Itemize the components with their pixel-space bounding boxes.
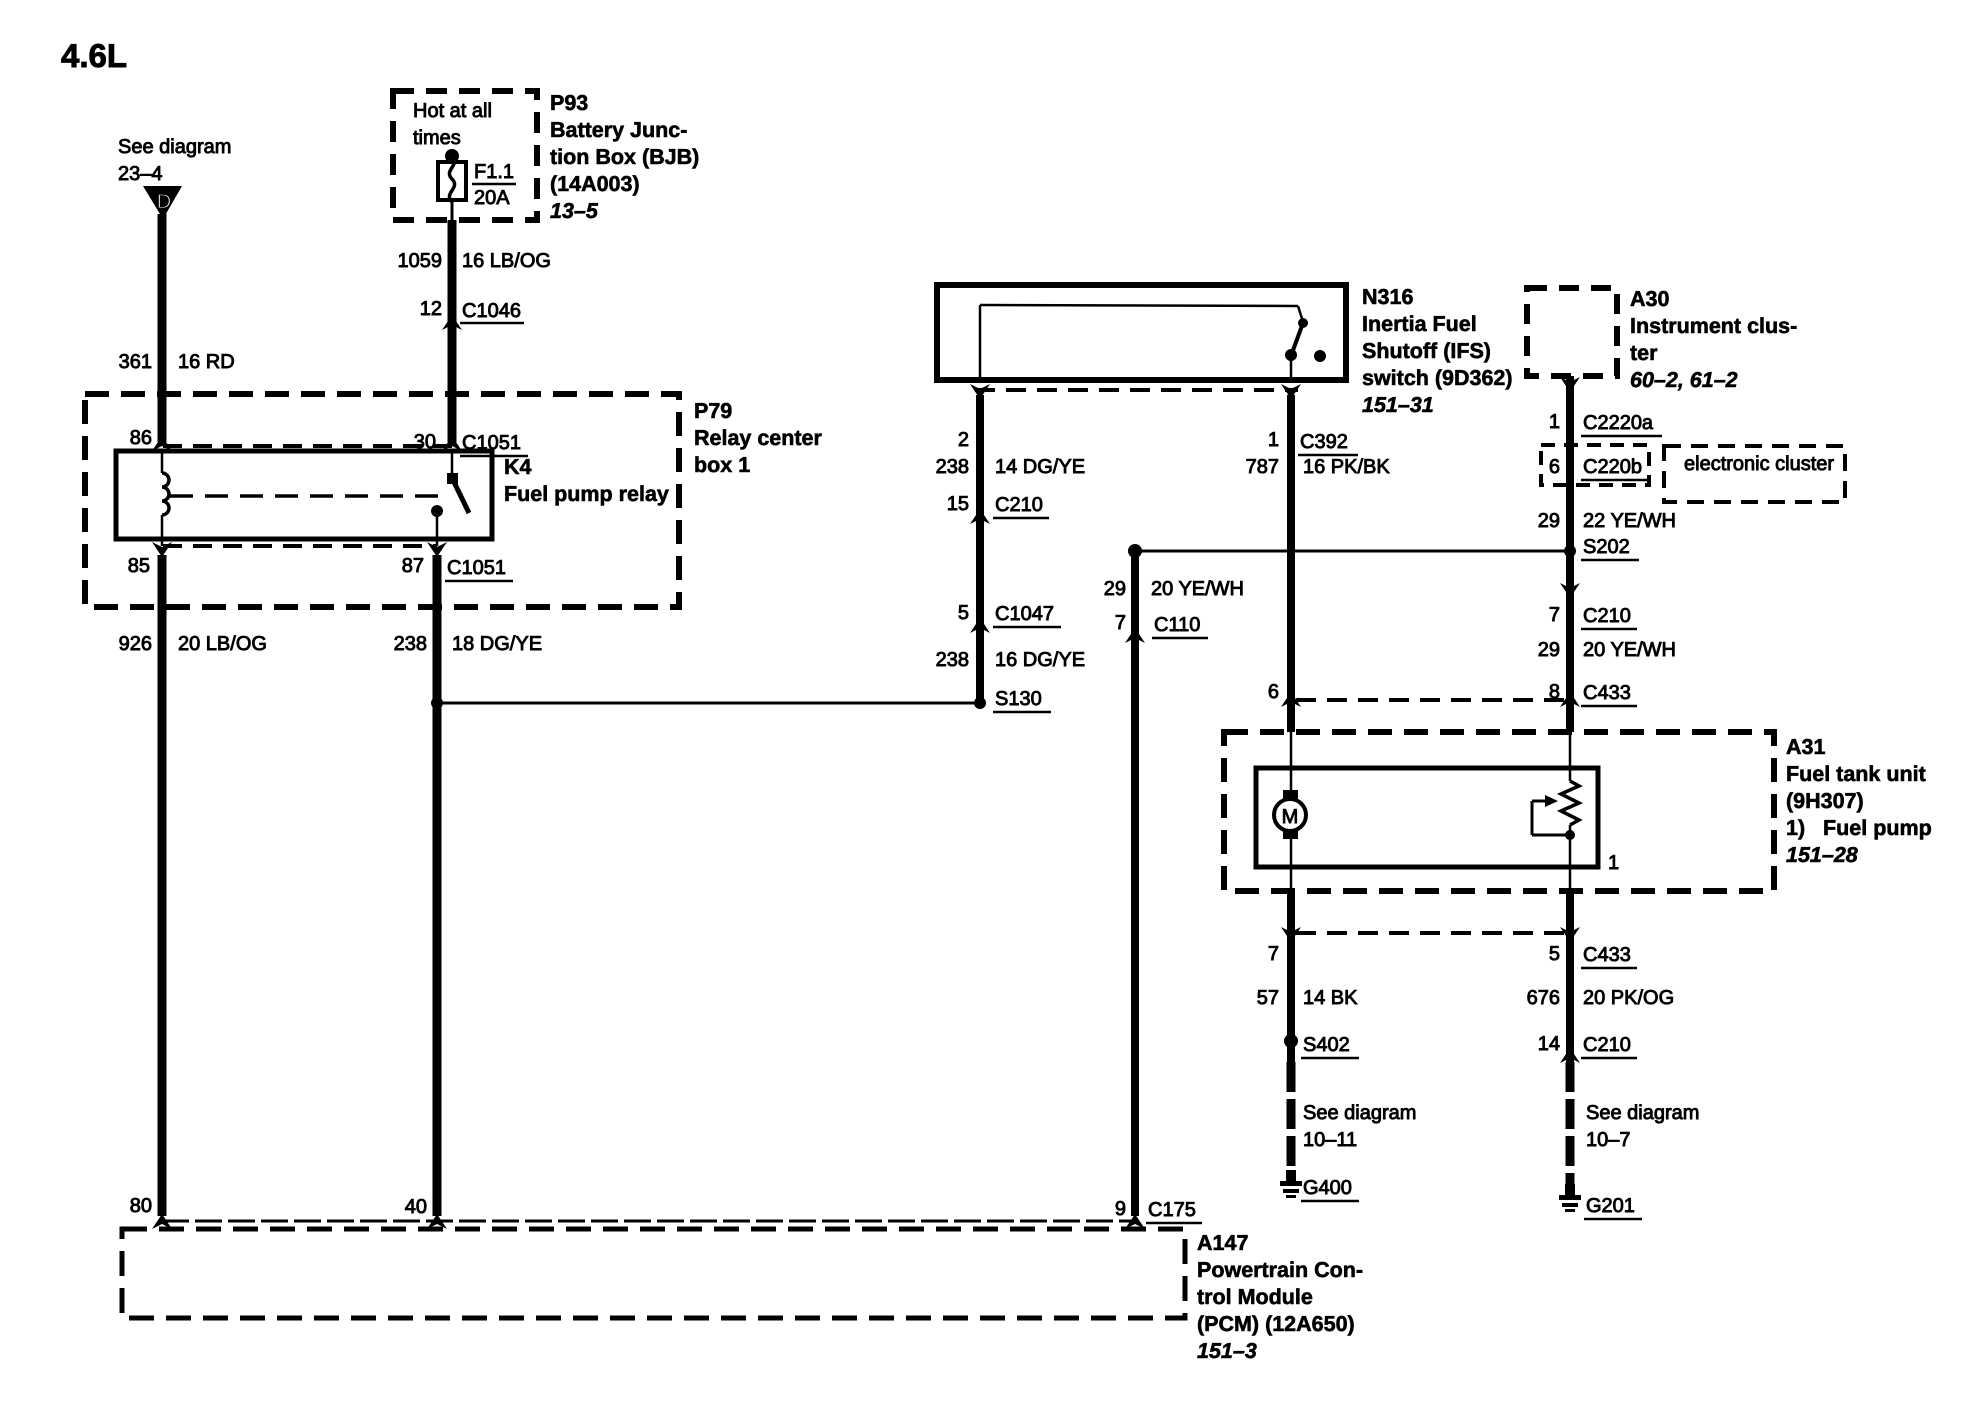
relay K4 body (116, 451, 492, 539)
svg-text:S402: S402 (1303, 1034, 1350, 1056)
A30 instrument cluster box (dashed) (1527, 288, 1617, 376)
wire 787 16 PK/BK (IFS pin1 down to fuel pump) (1287, 395, 1295, 732)
svg-text:C210: C210 (995, 494, 1043, 516)
svg-text:switch (9D362): switch (9D362) (1362, 366, 1513, 390)
svg-text:361: 361 (119, 351, 152, 373)
svg-text:S202: S202 (1583, 536, 1630, 558)
svg-text:926: 926 (119, 633, 152, 655)
svg-text:15: 15 (947, 493, 969, 515)
svg-text:12: 12 (420, 298, 442, 320)
svg-text:29: 29 (1104, 578, 1126, 600)
svg-text:18 DG/YE: 18 DG/YE (452, 633, 542, 655)
svg-text:20A: 20A (474, 187, 510, 209)
connector C392 (IFS pins 2/1) (975, 388, 1298, 392)
svg-text:D: D (157, 191, 171, 213)
svg-text:14: 14 (1538, 1033, 1560, 1055)
svg-text:23–4: 23–4 (118, 163, 163, 185)
svg-text:P79: P79 (694, 399, 732, 423)
svg-text:S130: S130 (995, 688, 1042, 710)
svg-text:8: 8 (1549, 681, 1560, 703)
svg-text:1059: 1059 (398, 250, 443, 272)
A147 PCM box (dashed) (122, 1229, 1185, 1318)
svg-text:16 LB/OG: 16 LB/OG (462, 250, 551, 272)
svg-text:29: 29 (1538, 639, 1560, 661)
connector C433 pins 7/5 (1296, 931, 1566, 935)
svg-text:electronic cluster: electronic cluster (1684, 453, 1834, 475)
svg-text:5: 5 (958, 602, 969, 624)
wire 29/S202 to C110 (thin link) (1135, 550, 1570, 553)
svg-text:5: 5 (1549, 943, 1560, 965)
svg-text:20 YE/WH: 20 YE/WH (1583, 639, 1676, 661)
svg-text:7: 7 (1268, 943, 1279, 965)
ground G400 (1286, 1170, 1296, 1182)
svg-text:85: 85 (128, 555, 150, 577)
svg-text:9: 9 (1115, 1198, 1126, 1220)
svg-text:Fuel pump relay: Fuel pump relay (504, 482, 669, 506)
svg-text:tion Box (BJB): tion Box (BJB) (550, 145, 699, 169)
svg-text:C433: C433 (1583, 682, 1631, 704)
svg-text:K4: K4 (504, 455, 532, 479)
pin 9 connector C175 (1125, 1214, 1145, 1229)
fuel level sender (variable resistor) (1569, 732, 1572, 781)
svg-text:10–11: 10–11 (1303, 1129, 1357, 1151)
IFS internal contacts (979, 305, 982, 380)
svg-text:See diagram: See diagram (1303, 1102, 1416, 1124)
svg-text:20 LB/OG: 20 LB/OG (178, 633, 267, 655)
svg-text:57: 57 (1257, 987, 1279, 1009)
N316 IFS switch box (937, 285, 1346, 380)
wire 238 18 DG/YE (relay 87 to PCM 40) (433, 555, 442, 1216)
svg-text:2: 2 (958, 429, 969, 451)
svg-text:N316: N316 (1362, 285, 1413, 309)
svg-text:87: 87 (402, 555, 424, 577)
svg-text:14 BK: 14 BK (1303, 987, 1358, 1009)
svg-text:151–28: 151–28 (1786, 843, 1858, 867)
svg-text:787: 787 (1246, 456, 1279, 478)
splice S402 (1284, 1034, 1298, 1048)
svg-text:M: M (1282, 806, 1299, 828)
svg-text:16 RD: 16 RD (178, 351, 235, 373)
svg-text:16 PK/BK: 16 PK/BK (1303, 456, 1390, 478)
svg-text:C220b: C220b (1583, 456, 1642, 478)
svg-text:G400: G400 (1303, 1177, 1352, 1199)
svg-text:238: 238 (936, 456, 969, 478)
A31 fuel tank unit box (dashed) (1224, 732, 1774, 891)
svg-text:A31: A31 (1786, 735, 1825, 759)
svg-text:1: 1 (1608, 852, 1619, 874)
svg-text:Shutoff (IFS): Shutoff (IFS) (1362, 339, 1491, 363)
svg-text:Relay center: Relay center (694, 426, 823, 450)
node D off-page triangle (143, 186, 182, 219)
svg-text:29: 29 (1538, 510, 1560, 532)
svg-text:16 DG/YE: 16 DG/YE (995, 649, 1085, 671)
connector C1051 top (pins 86/30) (163, 444, 452, 448)
P79 relay center box 1 (dashed) (85, 394, 679, 607)
svg-text:C175: C175 (1148, 1199, 1196, 1221)
svg-text:C1047: C1047 (995, 603, 1054, 625)
svg-text:C210: C210 (1583, 1034, 1631, 1056)
svg-text:60–2, 61–2: 60–2, 61–2 (1630, 368, 1738, 392)
pin 80 (152, 1214, 172, 1229)
svg-text:ter: ter (1630, 341, 1658, 365)
svg-text:40: 40 (405, 1196, 427, 1218)
wire 926 20 LB/OG (relay 85 to PCM 80) (158, 555, 167, 1216)
wire splice link to S130 (437, 702, 979, 705)
electronic cluster box (dashed) (1664, 446, 1845, 502)
svg-text:(9H307): (9H307) (1786, 789, 1864, 813)
wire (dashed continuation) to G201 (1566, 1062, 1575, 1184)
svg-text:See diagram: See diagram (1586, 1102, 1699, 1124)
connector C220b pin 6 (dashed box) (1541, 445, 1649, 485)
svg-text:1: 1 (1549, 411, 1560, 433)
svg-text:4.6L: 4.6L (61, 37, 127, 74)
svg-text:10–7: 10–7 (1586, 1129, 1631, 1151)
wire 238 14 DG/YE (IFS pin2 down to S130) (976, 395, 984, 703)
svg-text:86: 86 (130, 427, 152, 449)
wire 29 20 YE/WH (to PCM pin 9) (1131, 551, 1139, 1216)
svg-text:Instrument clus-: Instrument clus- (1630, 314, 1797, 338)
connector C1051 bottom (pins 85/87) (163, 544, 437, 548)
svg-text:1) Fuel pump: 1) Fuel pump (1786, 816, 1932, 840)
svg-text:Battery Junc-: Battery Junc- (550, 118, 687, 142)
svg-text:20 PK/OG: 20 PK/OG (1583, 987, 1674, 1009)
svg-text:A30: A30 (1630, 287, 1669, 311)
wire 361 16 RD (triangle to relay pin 86) (158, 214, 167, 442)
svg-text:C1046: C1046 (462, 300, 521, 322)
P93 battery junction box (dashed) (393, 91, 537, 220)
svg-text:7: 7 (1549, 604, 1560, 626)
svg-text:See diagram: See diagram (118, 136, 231, 158)
svg-text:C392: C392 (1300, 431, 1348, 453)
pin 40 (427, 1214, 447, 1229)
ground G201 (1565, 1184, 1575, 1196)
svg-text:C2220a: C2220a (1583, 412, 1654, 434)
svg-text:238: 238 (394, 633, 427, 655)
svg-text:Inertia Fuel: Inertia Fuel (1362, 312, 1477, 336)
wire 1059 16 LB/OG (fuse to relay pin 30) (451, 200, 454, 220)
svg-text:C1051: C1051 (447, 557, 506, 579)
svg-text:6: 6 (1268, 681, 1279, 703)
fuse F1.1 20A (445, 149, 459, 163)
svg-text:676: 676 (1527, 987, 1560, 1009)
svg-text:A147: A147 (1197, 1231, 1248, 1255)
svg-text:238: 238 (936, 649, 969, 671)
svg-text:C210: C210 (1583, 605, 1631, 627)
svg-text:C110: C110 (1154, 614, 1200, 636)
relay coil (161, 451, 164, 473)
svg-text:(PCM) (12A650): (PCM) (12A650) (1197, 1312, 1355, 1336)
svg-text:box 1: box 1 (694, 453, 750, 477)
svg-text:times: times (413, 127, 461, 149)
svg-text:13–5: 13–5 (550, 199, 599, 223)
svg-text:trol Module: trol Module (1197, 1285, 1313, 1309)
svg-text:14 DG/YE: 14 DG/YE (995, 456, 1085, 478)
wire from A30 (1566, 376, 1574, 732)
svg-text:G201: G201 (1586, 1195, 1635, 1217)
svg-text:1: 1 (1268, 429, 1279, 451)
svg-text:Fuel tank unit: Fuel tank unit (1786, 762, 1926, 786)
svg-text:6: 6 (1549, 456, 1560, 478)
svg-text:7: 7 (1115, 612, 1126, 634)
svg-text:151–31: 151–31 (1362, 393, 1434, 417)
svg-text:Powertrain Con-: Powertrain Con- (1197, 1258, 1363, 1282)
relay switch (451, 451, 454, 478)
PCM pin header line (162, 1220, 1135, 1223)
svg-text:Hot at all: Hot at all (413, 100, 492, 122)
fuel pump motor M (1290, 732, 1293, 792)
svg-text:151–3: 151–3 (1197, 1339, 1257, 1363)
fuel tank unit inner box (1256, 768, 1598, 867)
svg-text:P93: P93 (550, 91, 588, 115)
svg-text:(14A003): (14A003) (550, 172, 640, 196)
svg-text:22 YE/WH: 22 YE/WH (1583, 510, 1676, 532)
svg-text:80: 80 (130, 1195, 152, 1217)
svg-text:20 YE/WH: 20 YE/WH (1151, 578, 1244, 600)
relay actuation dashed link (170, 494, 443, 498)
svg-text:C433: C433 (1583, 944, 1631, 966)
svg-text:F1.1: F1.1 (474, 161, 514, 183)
wire (dashed continuation) to G400 (1287, 1062, 1296, 1172)
